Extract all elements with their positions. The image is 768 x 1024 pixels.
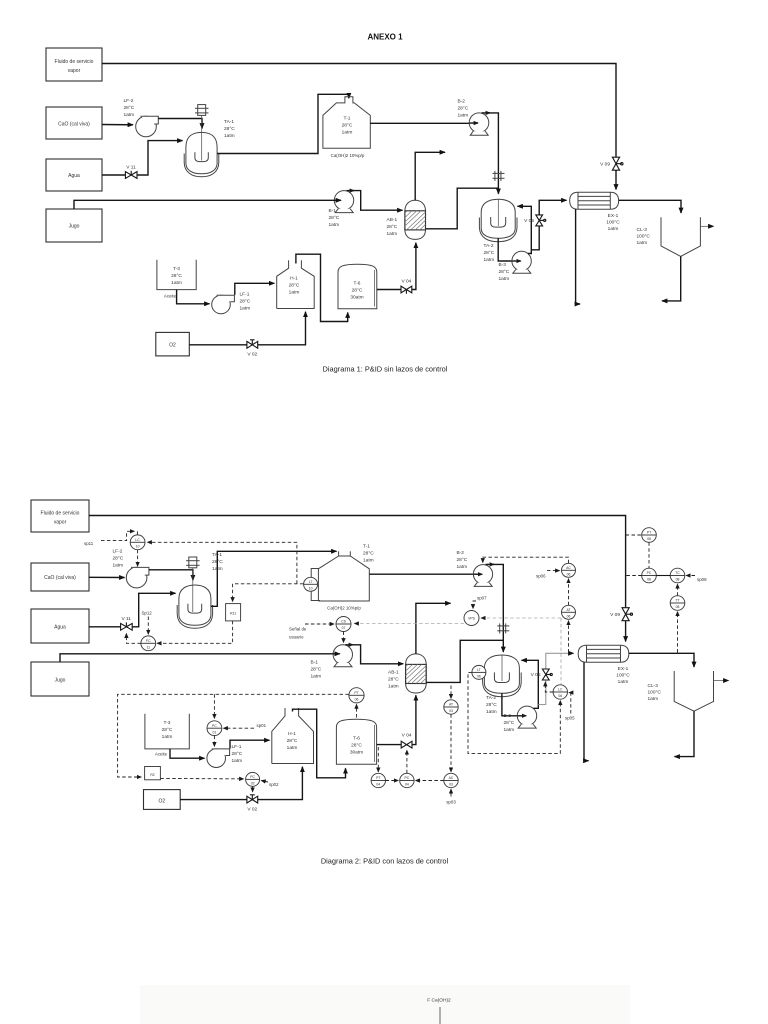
svg-text:H-1: H-1 [288, 731, 296, 737]
svg-text:Ca(OH)2 10%p/p: Ca(OH)2 10%p/p [331, 153, 365, 158]
svg-text:CL-3: CL-3 [648, 683, 659, 689]
wire LF-1 outlet to H-1 (2) [230, 740, 270, 748]
wire H-1 flue to T-6 [296, 254, 348, 321]
pump B-3 [512, 251, 531, 273]
svg-text:sp03: sp03 [446, 800, 456, 805]
svg-text:sp06: sp06 [536, 574, 546, 579]
instrument AC-06 [562, 563, 576, 577]
wire B-3 branch through V05 to EX-1 [531, 200, 566, 250]
svg-text:1atm: 1atm [329, 222, 340, 228]
svg-text:28°C: 28°C [171, 273, 182, 279]
svg-text:08: 08 [676, 605, 680, 609]
svg-text:TA-1: TA-1 [224, 119, 234, 125]
svg-text:B-2: B-2 [458, 99, 466, 105]
wire V04 to AB-1 bottom (2) [412, 695, 416, 744]
svg-text:28°C: 28°C [457, 557, 468, 563]
signal branch to PC-01 [213, 694, 215, 718]
svg-text:sp08: sp08 [697, 577, 707, 582]
svg-text:PC: PC [212, 724, 217, 728]
inline flange on B-2 line [493, 171, 505, 181]
instrument PC-02 [246, 772, 260, 786]
label T-3 [164, 266, 182, 299]
valve V09 (2) [610, 608, 632, 621]
svg-text:1atm: 1atm [287, 745, 298, 751]
instrument FC-11 [141, 636, 156, 651]
instrument PC-04 [400, 773, 414, 787]
svg-text:1atm: 1atm [162, 734, 173, 740]
signal AC-06 to B-2 [483, 557, 569, 563]
source box Jugo (2) [31, 662, 89, 696]
wire CL-3 overflow (2) [714, 680, 729, 682]
svg-text:PC: PC [405, 776, 410, 780]
source box Fluido de servicio vapor [46, 48, 102, 81]
wire B-1 outlet to AB-1 [347, 191, 403, 211]
wire T-3 to LF-1 [177, 290, 210, 304]
instrument CS-07 [336, 617, 351, 632]
inline flange on B-2 line (2) [497, 623, 509, 633]
svg-text:T-1: T-1 [363, 544, 370, 550]
wire Jugo to B-1 [74, 200, 341, 209]
valve V11 [125, 165, 137, 179]
signal sample to AT-06 [568, 621, 570, 653]
svg-text:PC: PC [250, 775, 255, 779]
signal PT-08 to PC-08 [648, 542, 650, 568]
label B-3 [499, 262, 510, 282]
valve V04 (2) [401, 732, 412, 748]
svg-text:Agua: Agua [68, 173, 80, 179]
svg-text:R2: R2 [150, 773, 154, 777]
svg-text:AC: AC [449, 776, 454, 780]
wire Jugo to B-1 (2) [60, 654, 340, 662]
signal PT-04 to PC-04 [386, 780, 399, 782]
signal PC-08 to V09 [626, 575, 642, 577]
wire EX-1 outlet to CL-3 (2) [629, 653, 694, 667]
svg-text:V 02: V 02 [247, 352, 257, 358]
svg-text:Aceite: Aceite [164, 294, 177, 299]
svg-text:B-1: B-1 [311, 660, 319, 666]
svg-text:08: 08 [647, 578, 651, 582]
svg-text:10: 10 [136, 545, 140, 549]
bottom fragment wire [439, 1007, 441, 1024]
wire EX-1 outlet to CL-3 [619, 200, 681, 213]
svg-text:AT: AT [566, 608, 570, 612]
svg-text:100°C: 100°C [606, 220, 620, 226]
svg-text:08: 08 [647, 537, 651, 541]
svg-text:04: 04 [376, 783, 380, 787]
svg-text:H-1: H-1 [290, 276, 298, 282]
valve V09 [600, 157, 623, 170]
svg-text:28°C: 28°C [499, 269, 510, 275]
svg-text:O2: O2 [169, 343, 176, 349]
clarifier CL-3 [661, 217, 700, 256]
svg-text:28°C: 28°C [113, 556, 124, 562]
svg-text:1atm: 1atm [484, 257, 495, 263]
signal sample to TT-08 [677, 612, 679, 653]
svg-text:T-1: T-1 [344, 116, 351, 122]
pump B-3 (2) [517, 706, 536, 728]
instrument PT-06 [349, 688, 364, 703]
relay box R2 [145, 767, 161, 780]
svg-text:B-1: B-1 [329, 208, 337, 214]
label H-1 (2) [287, 731, 298, 751]
valve V05 (2) [531, 669, 553, 680]
wire arrow into B-3 (2) [518, 715, 527, 717]
signal sp01 to PC-01 [224, 723, 267, 728]
wire TA-2 bottom to pump B-3 [498, 238, 520, 261]
instrument LT-10 [304, 577, 318, 591]
svg-text:PC: PC [647, 571, 652, 575]
instrument AT-03 [444, 700, 458, 714]
source box Agua [46, 159, 102, 191]
pump B-1 (2) [333, 645, 352, 667]
label B-1 (2) [311, 660, 322, 680]
wire T-1 to pump B-2 (2) [369, 573, 480, 575]
svg-text:Diagrama 1: P&ID sin lazos de: Diagrama 1: P&ID sin lazos de control [323, 365, 448, 374]
svg-text:AC: AC [566, 566, 571, 570]
svg-text:Fluido de servicio: Fluido de servicio [41, 511, 80, 517]
valve V02 (2) [247, 795, 258, 813]
svg-text:02: 02 [251, 782, 255, 786]
heat exchanger EX-1 [570, 192, 619, 209]
label T-6 (2) [350, 736, 363, 756]
svg-text:03: 03 [449, 783, 453, 787]
svg-text:1atm: 1atm [363, 558, 374, 564]
label LF-2 [124, 98, 135, 118]
label B-3 (2) [504, 713, 515, 733]
heat exchanger EX-1 (2) [578, 645, 629, 662]
label TA-2 (2) [486, 695, 497, 715]
svg-text:28°C: 28°C [329, 215, 340, 221]
wire CL-3 bottoms (2) [675, 711, 695, 756]
wire V11 to TA-1 inlet [137, 141, 183, 175]
svg-text:28°C: 28°C [240, 299, 251, 305]
tank TA-2 [479, 199, 517, 242]
svg-text:28°C: 28°C [388, 677, 399, 683]
tank T-1 (2) [318, 551, 369, 601]
signal sp03 to AC-03 [446, 789, 456, 804]
instrument LC-10 [130, 535, 145, 550]
signal AT-06 to AC-06 [568, 579, 570, 606]
valve V11 (2) [121, 616, 133, 630]
svg-text:06: 06 [567, 573, 571, 577]
signal sp05 to LC-06 [565, 693, 575, 721]
label AB-1 [387, 217, 398, 237]
signal PC-04 to V04 [406, 750, 408, 773]
tank T-1 [323, 97, 370, 149]
svg-text:PT: PT [647, 531, 651, 535]
blower LF-1 [212, 295, 235, 314]
svg-text:LF-2: LF-2 [113, 549, 123, 555]
svg-text:1atm: 1atm [240, 306, 251, 312]
svg-text:100°C: 100°C [648, 690, 662, 696]
svg-text:11: 11 [147, 646, 151, 650]
wire CaO to LF-2 (2) [89, 576, 125, 578]
label B-2 (2) [457, 550, 468, 570]
svg-text:F Ca(OH)2: F Ca(OH)2 [427, 998, 451, 1004]
svg-text:06: 06 [355, 698, 359, 702]
svg-text:1atm: 1atm [499, 276, 510, 282]
wire Agua to V11 [102, 174, 125, 176]
svg-text:1atm: 1atm [486, 709, 497, 715]
label T-6 [350, 281, 363, 301]
svg-text:vapor: vapor [54, 520, 67, 526]
svg-text:30atm: 30atm [350, 750, 363, 756]
svg-text:LT: LT [477, 668, 481, 672]
svg-text:1atm: 1atm [458, 113, 469, 119]
wire LF-2 outlet to TA-1 top [158, 119, 202, 129]
faint page-bottom band [140, 985, 630, 1024]
label EX-1 (2) [616, 666, 630, 685]
svg-text:1atm: 1atm [618, 679, 629, 685]
label CL-3 (2) [648, 683, 662, 702]
tank T-3 [157, 260, 196, 290]
wire arrow into B-2 (2) [474, 573, 483, 575]
signal AT-03 to AC-03 [450, 714, 452, 772]
svg-text:100°C: 100°C [616, 673, 630, 679]
svg-text:07: 07 [342, 626, 346, 630]
svg-text:10: 10 [309, 587, 313, 591]
clarifier CL-3 (2) [674, 671, 713, 711]
svg-text:VPS: VPS [468, 617, 476, 621]
svg-text:1atm: 1atm [113, 563, 124, 569]
furnace H-1 (2) [272, 708, 314, 764]
wire LF-2 outlet to TA-1 (2) [149, 570, 193, 580]
svg-text:28°C: 28°C [162, 727, 173, 733]
wire B-3 recirculation to TA-2 [518, 206, 532, 253]
svg-text:28°C: 28°C [124, 105, 135, 111]
svg-text:28°C: 28°C [232, 751, 243, 757]
svg-text:Ca(OH)2 10%p/p: Ca(OH)2 10%p/p [327, 606, 361, 611]
signal Sp12 to FC-11 [142, 611, 153, 635]
svg-text:LC: LC [135, 538, 140, 542]
wire T-6 to V04 (2) [377, 744, 402, 746]
svg-text:sp07: sp07 [477, 596, 487, 601]
svg-text:1atm: 1atm [289, 290, 300, 296]
svg-text:08: 08 [676, 578, 680, 582]
source box O2 [156, 332, 190, 356]
svg-text:EX-1: EX-1 [608, 213, 619, 219]
svg-text:28°C: 28°C [351, 743, 362, 749]
blower LF-2 (2) [126, 567, 149, 588]
wire steam header to V09 to EX-1 (2) [89, 516, 626, 642]
svg-text:28°C: 28°C [387, 224, 398, 230]
wire CaO to LF-2 [102, 124, 133, 126]
svg-text:sp01: sp01 [257, 723, 267, 728]
svg-text:1atm: 1atm [457, 564, 468, 570]
svg-text:CaO (cal viva): CaO (cal viva) [44, 575, 76, 581]
wire TA-1 outlet to T-1 (2) [211, 551, 337, 606]
instrument TT-08 [670, 596, 685, 611]
svg-text:1atm: 1atm [171, 280, 182, 286]
label B-2 [458, 99, 469, 119]
svg-text:1atm: 1atm [648, 696, 659, 702]
wire LF-1 outlet to H-1 [235, 283, 274, 295]
signal LC-10 to LF-2 [137, 550, 139, 567]
signal LT-06 to LC-06 [468, 672, 560, 753]
svg-text:100°C: 100°C [637, 234, 651, 240]
svg-text:sp05: sp05 [565, 716, 575, 721]
signal LT-10 to R11 [233, 584, 304, 602]
signal sp08 to TC-08 [686, 576, 707, 583]
svg-text:06: 06 [558, 694, 562, 698]
tank TA-1 (2) [177, 585, 212, 628]
instrument PT-08 [642, 528, 657, 543]
instrument PC-01 [207, 721, 222, 736]
svg-text:V 11: V 11 [126, 165, 136, 171]
svg-text:30atm: 30atm [350, 295, 363, 301]
source box Fluido de servicio vapor (2) [31, 500, 89, 532]
label TA-1 (2) [212, 552, 223, 572]
signal FC-11 to V11 [126, 634, 140, 644]
svg-text:Jugo: Jugo [69, 224, 80, 230]
svg-text:1atm: 1atm [387, 231, 398, 237]
signal T-6 to PT-06 [356, 704, 358, 717]
svg-text:Señal de: Señal de [289, 627, 307, 632]
blower LF-1 (2) [207, 749, 230, 768]
signal T-6 to PT-04 [377, 747, 379, 772]
svg-text:B-3: B-3 [499, 262, 507, 268]
svg-text:28°C: 28°C [352, 288, 363, 294]
svg-text:CL-3: CL-3 [637, 227, 648, 233]
signal PT-06 main loop west [118, 694, 349, 777]
relay box R11 [226, 604, 241, 621]
wire arrow into B-2 [469, 122, 478, 124]
label señal de usuario [289, 627, 307, 640]
pump B-1 [334, 191, 353, 213]
wire AB-1 outlet to TA-2 feed junction [426, 188, 499, 229]
source box CaO (cal viva) [46, 107, 102, 139]
wire B-3 recirculation to TA-2 (2) [522, 660, 539, 708]
signal CS-07 to B-1 [343, 632, 345, 643]
svg-text:Jugo: Jugo [55, 678, 66, 684]
svg-text:01: 01 [213, 730, 217, 734]
label T-3 (2) [155, 720, 173, 757]
instrument TC-08 [670, 568, 685, 583]
svg-text:T-3: T-3 [173, 266, 180, 272]
wire TA-1 outlet to T-1 [217, 94, 349, 153]
svg-text:Sp12: Sp12 [142, 611, 153, 616]
label CL-3 [637, 227, 651, 246]
svg-text:28°C: 28°C [342, 123, 353, 129]
svg-text:28°C: 28°C [224, 126, 235, 132]
svg-text:28°C: 28°C [363, 551, 374, 557]
wire V04 to AB-1 bottom [412, 243, 416, 290]
svg-text:Aceite: Aceite [155, 752, 168, 757]
svg-text:LF-1: LF-1 [232, 744, 242, 750]
blower LF-2 [136, 116, 159, 137]
wire CL-3 overflow [700, 225, 713, 227]
svg-text:PT: PT [354, 691, 358, 695]
svg-text:Diagrama 2: P&ID con lazos de: Diagrama 2: P&ID con lazos de control [321, 857, 449, 866]
svg-text:AT: AT [449, 703, 453, 707]
signal sp06 to AC-06 [536, 571, 560, 579]
svg-text:28°C: 28°C [458, 106, 469, 112]
svg-text:Agua: Agua [54, 625, 66, 631]
svg-text:1atm: 1atm [224, 133, 235, 139]
svg-text:1atm: 1atm [504, 727, 515, 733]
signal AC-03 to PC-04 [416, 780, 444, 782]
svg-text:06: 06 [567, 615, 571, 619]
signal PC-02 to V02 [252, 786, 254, 791]
signal gray VPS link right [481, 618, 561, 684]
svg-text:1atm: 1atm [608, 226, 619, 232]
svg-text:06: 06 [477, 675, 481, 679]
wire H-1 flue to T-6 (2) [293, 709, 346, 778]
svg-text:V 02: V 02 [247, 807, 257, 813]
svg-text:V 04: V 04 [402, 732, 412, 738]
svg-text:04: 04 [405, 783, 409, 787]
level standpipe of T-1 (2) [311, 569, 320, 601]
svg-text:V 11: V 11 [121, 616, 131, 622]
wire AB-1 vent (2) [416, 603, 451, 654]
svg-text:1atm: 1atm [311, 674, 322, 680]
svg-text:vapor: vapor [68, 68, 81, 74]
svg-text:28°C: 28°C [484, 250, 495, 256]
wire EX-1 drain (2) [584, 662, 589, 761]
instrument LT-06 [472, 665, 486, 679]
wire steam header to V09 to EX-1 [102, 64, 616, 190]
tank TA-2 (2) [483, 655, 522, 697]
valve V05 [524, 215, 546, 226]
svg-text:FC: FC [146, 639, 151, 643]
label TA-1 [224, 119, 235, 139]
svg-text:Fluido de servicio: Fluido de servicio [55, 59, 94, 65]
wire B-3 branch through V05 to EX-1 (2) [538, 653, 573, 704]
signal TC-08 to PC-08 [656, 575, 670, 577]
svg-text:B-3: B-3 [504, 713, 512, 719]
label T-1 (2) [327, 544, 374, 611]
wire V02 to H-1 [258, 312, 306, 345]
source box O2 (2) [144, 790, 181, 810]
source box Agua (2) [31, 609, 89, 643]
svg-text:LF-2: LF-2 [124, 98, 134, 104]
svg-text:CS: CS [341, 620, 346, 624]
column AB-1 [405, 200, 426, 239]
svg-text:1atm: 1atm [232, 758, 243, 764]
valve V02 [247, 340, 258, 358]
label LF-1 [240, 292, 251, 312]
label EX-1 [606, 213, 620, 232]
svg-text:28°C: 28°C [311, 667, 322, 673]
signal LC-06 to V05 [545, 682, 553, 692]
label AB-1 (2) [388, 670, 399, 690]
wire Agua to V11 (2) [89, 626, 121, 628]
label T-1 [331, 116, 365, 159]
svg-text:CaO (cal viva): CaO (cal viva) [58, 122, 90, 128]
column AB-1 (2) [406, 654, 427, 693]
tank T-3 (2) [145, 714, 189, 749]
svg-text:AB-1: AB-1 [387, 217, 398, 223]
svg-text:O2: O2 [158, 799, 165, 805]
wire AB-1 vent [415, 152, 445, 200]
wire V11 to TA-1 inlet (2) [132, 593, 175, 627]
wire T-1 to pump B-2 [370, 122, 476, 124]
signal sp11 to LC-10 [84, 531, 137, 546]
signal PC-01 to LF-1 [213, 736, 215, 747]
label LF-2 (2) [113, 549, 124, 569]
signal sp02 to PC-02 [261, 781, 279, 787]
svg-text:28°C: 28°C [504, 720, 515, 726]
svg-text:AB-1: AB-1 [388, 670, 399, 676]
svg-text:1atm: 1atm [342, 130, 353, 136]
svg-text:V 05: V 05 [524, 218, 534, 224]
instrument LC-06 [553, 685, 567, 699]
wire AB-1 outlet to TA-2 feed junction (2) [426, 640, 503, 682]
label LF-1 (2) [232, 744, 243, 764]
label H-1 [289, 276, 300, 296]
svg-text:TA-2: TA-2 [484, 243, 494, 249]
svg-text:LF-1: LF-1 [240, 292, 250, 298]
